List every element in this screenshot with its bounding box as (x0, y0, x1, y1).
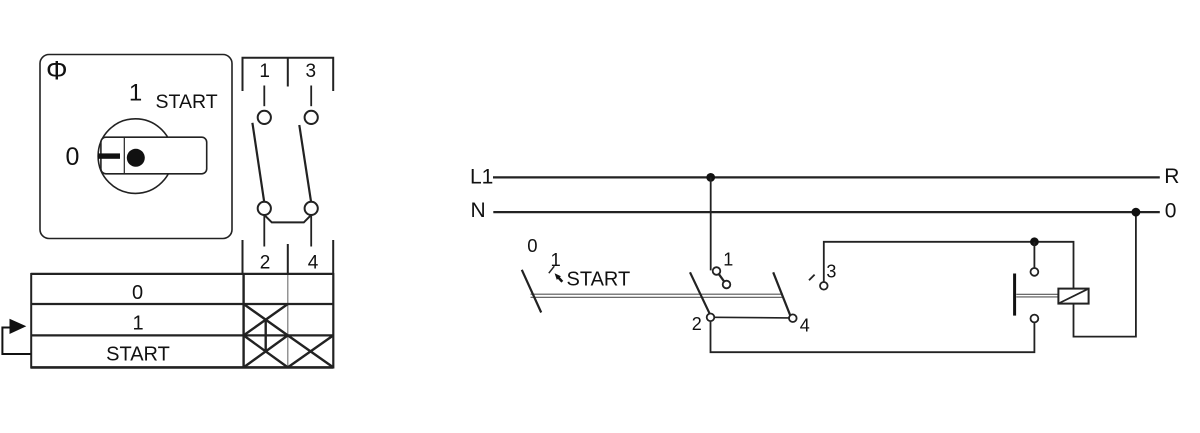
svg-text:0: 0 (66, 143, 80, 171)
svg-text:1: 1 (129, 80, 142, 107)
svg-text:0: 0 (527, 235, 537, 256)
svg-text:0: 0 (132, 282, 143, 304)
svg-text:2: 2 (260, 253, 271, 274)
svg-text:4: 4 (800, 316, 810, 336)
svg-text:L1: L1 (470, 166, 493, 189)
svg-text:2: 2 (692, 314, 702, 334)
svg-text:START: START (156, 91, 218, 113)
svg-text:1: 1 (551, 249, 561, 270)
svg-text:3: 3 (826, 262, 836, 282)
svg-text:START: START (567, 269, 631, 291)
svg-text:N: N (471, 199, 486, 222)
svg-text:1: 1 (132, 313, 143, 335)
svg-text:START: START (106, 343, 170, 365)
svg-text:R: R (1164, 165, 1179, 188)
svg-text:0: 0 (1165, 200, 1177, 223)
svg-text:Φ: Φ (46, 56, 68, 86)
svg-text:1: 1 (723, 249, 733, 269)
svg-text:1: 1 (259, 61, 270, 82)
svg-text:3: 3 (306, 61, 317, 82)
svg-text:4: 4 (308, 253, 319, 274)
